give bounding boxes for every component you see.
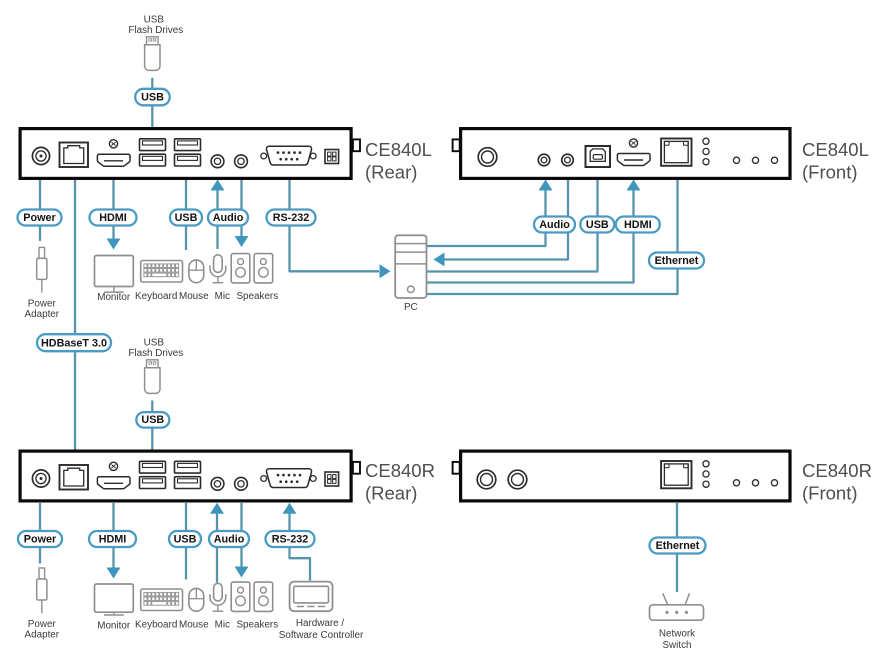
wire HDBaseT link CE840L to CE840R [74,179,76,451]
PC tower icon [395,235,426,298]
CE840L front ethernet RJ-45 port [661,139,691,166]
top power adapter icon [37,247,47,292]
svg-text:Ethernet: Ethernet [655,255,699,267]
wire USB port to keyboard and mouse [185,179,187,250]
top mouse icon [189,260,204,283]
label pill Ethernet (CE840R) [650,538,706,554]
svg-text:Ethernet: Ethernet [656,540,700,552]
arrowhead HDMI to monitor (bottom) [107,568,121,579]
svg-text:CE840L: CE840L [802,139,869,160]
CE840R front left mounting tab [453,462,460,474]
CE840L rear HDMI port [97,140,130,167]
CE840L rear HDBaseT RJ-45 port [60,143,89,168]
label pill HDBaseT 3.0 [37,334,111,351]
svg-text:Software Controller: Software Controller [279,630,364,641]
svg-text:Flash Drives: Flash Drives [128,25,183,36]
svg-text:Speakers: Speakers [236,620,278,631]
bottom keyboard icon [141,589,183,611]
svg-text:(Rear): (Rear) [365,483,417,504]
svg-text:USB: USB [174,534,197,546]
arrowhead RS-232 into CE840R [283,503,297,514]
CE840R rear audio out jack [235,477,248,490]
wire USB flash drive to CE840L rear USB port [151,78,153,128]
label pill HDMI (CE840R) [89,531,136,547]
label pill USB (top flash drive) [135,89,170,106]
CE840R rear USB port 4 [175,477,201,489]
wire CE840R power port to power adapter [39,503,41,564]
CE840L rear mic jack [211,155,224,168]
svg-text:USB: USB [586,219,609,231]
svg-text:CE840R: CE840R [802,460,872,481]
svg-text:HDMI: HDMI [99,212,127,224]
label pill Power (CE840L) [18,210,62,226]
svg-text:Keyboard: Keyboard [135,620,177,631]
top microphone icon [210,255,226,283]
CE840R rear right mounting tab [353,462,360,474]
CE840R front power button [477,470,496,489]
CE840R front ethernet RJ-45 port [661,461,691,488]
svg-text:(Rear): (Rear) [365,162,417,183]
svg-text:Flash Drives: Flash Drives [128,348,183,359]
arrowhead audio to speakers (bottom) [235,567,249,578]
label CE840R (Rear) [365,460,435,504]
svg-text:RS-232: RS-232 [273,212,310,224]
CE840L rear RS-232 DB9 port [261,146,316,165]
svg-text:Power: Power [28,298,57,309]
label pill RS-232 (CE840R) [266,531,315,547]
CE840R rear USB port 1 [140,461,166,473]
CE840R rear mic jack [211,477,224,490]
svg-text:Mic: Mic [215,291,230,302]
CE840R rear HDBaseT RJ-45 port [60,465,89,490]
svg-text:Monitor: Monitor [97,292,131,303]
arrowhead mic into CE840R audio-in [210,503,224,514]
svg-text:PC: PC [404,302,418,313]
label pill Power (CE840R) [18,531,62,547]
bottom microphone icon [210,583,226,611]
label pill USB (CE840R) [169,531,201,547]
svg-text:Audio: Audio [214,534,245,546]
CE840R rear chassis [20,451,351,501]
svg-text:USB: USB [175,212,198,224]
CE840L rear USB port 4 [175,154,201,166]
svg-text:Switch: Switch [662,640,691,651]
wire audio-out port to speakers [240,179,242,238]
svg-text:HDBaseT 3.0: HDBaseT 3.0 [41,337,107,349]
label pill HDMI (CE840L) [90,210,137,226]
bottom mouse icon [189,588,204,611]
svg-text:Adapter: Adapter [25,630,60,641]
svg-text:Power: Power [23,212,56,224]
CE840R rear USB port 2 [175,461,201,473]
label pill Audio (CE840R) [209,531,249,547]
wire mic to audio-in port [216,189,218,249]
CE840R front audio button [508,470,527,489]
CE840L front audio jack 1 [538,154,550,166]
middle USB flash drive icon [145,360,160,394]
wire CE840R HDMI port to monitor [112,503,114,569]
wire PC audio to CE840L front mic jack [427,189,546,246]
label pill USB (middle flash drive) [136,412,169,428]
svg-text:RS-232: RS-232 [272,534,309,546]
CE840R front chassis [461,451,790,501]
CE840R rear DC power jack [32,470,49,487]
top speakers icon [231,254,273,283]
arrowhead HDMI to monitor [107,239,121,250]
label CE840L (Rear) [365,139,432,183]
label CE840R (Front) [802,460,872,504]
wire PC USB to CE840L front USB-B port [427,179,598,272]
top monitor icon [95,256,134,293]
top keyboard icon [141,261,183,283]
CE840L front chassis [461,129,790,179]
svg-text:Speakers: Speakers [236,291,278,302]
bottom speakers icon [231,582,273,611]
label pill Audio (CE840L) [208,210,248,226]
svg-text:HDMI: HDMI [624,219,652,231]
bottom monitor icon [95,584,134,615]
top USB flash drive icon [145,37,160,71]
wire CE840R audio-out port to speakers [240,503,242,567]
svg-text:HDMI: HDMI [99,534,127,546]
CE840L rear USB port 1 [140,139,166,151]
svg-text:Power: Power [28,619,57,630]
label pill RS-232 (CE840L) [267,210,316,226]
CE840L front LED indicators [703,138,709,165]
CE840R rear RS-232 DB9 port [261,469,316,488]
CE840R rear DIP switch [325,472,339,486]
wire CE840R front ethernet port to network switch [676,503,678,592]
CE840L rear USB port 3 [140,154,166,166]
label CE840L (Front) [802,139,869,183]
CE840L front USB type-B port [586,146,611,167]
svg-text:(Front): (Front) [802,162,858,183]
CE840L rear DIP switch [325,150,339,164]
label pill HDMI (PC) [616,217,660,233]
CE840L rear right mounting tab [353,139,360,151]
wire CE840L front audio jack to PC [443,179,568,260]
arrowhead audio to speakers [235,236,249,247]
svg-text:(Front): (Front) [802,483,858,504]
CE840L front pushbuttons [733,157,777,163]
svg-text:Hardware /: Hardware / [296,618,345,629]
CE840L front power button [478,148,497,167]
wire HDMI port to monitor [112,179,114,240]
CE840R front pushbuttons [733,480,777,486]
svg-text:Power: Power [24,534,57,546]
svg-text:Audio: Audio [213,212,244,224]
arrowhead RS-232 into PC [380,264,391,278]
wire power port to power adapter [39,179,41,241]
bottom power adapter icon [37,568,47,613]
CE840L rear audio out jack [235,155,248,168]
arrowhead HDMI into CE840L front [627,180,641,191]
svg-text:Mic: Mic [215,620,230,631]
CE840L rear DC power jack [32,147,49,164]
label pill Ethernet (PC) [649,253,704,269]
CE840R rear USB port 3 [140,477,166,489]
svg-text:CE840L: CE840L [365,139,432,160]
label pill USB (CE840L) [170,210,202,226]
CE840R front LED indicators [703,461,709,488]
hardware/software controller icon [290,582,333,612]
label pill USB (PC) [580,217,614,233]
svg-text:Adapter: Adapter [25,309,60,320]
svg-text:Mouse: Mouse [179,291,209,302]
svg-text:CE840R: CE840R [365,460,435,481]
CE840L rear chassis [20,129,351,179]
svg-text:USB: USB [141,414,164,426]
network switch icon [650,593,704,620]
wire USB flash drive to CE840R rear USB port [151,401,153,452]
wire PC video to CE840L front HDMI port [427,189,634,283]
arrowhead audio into CE840L front [539,180,553,191]
svg-text:USB: USB [141,92,164,104]
CE840L front audio jack 2 [562,154,574,166]
arrowhead mic into CE840L audio-in [211,180,225,191]
CE840L front left mounting tab [453,139,460,151]
label pill Audio (PC) [534,217,575,233]
CE840L front HDMI port [617,139,650,166]
wire mic to CE840R audio-in port [216,513,218,583]
wire RS-232 port to PC [290,179,380,271]
svg-text:Network: Network [659,629,695,640]
CE840R rear HDMI port [97,462,130,489]
svg-text:Keyboard: Keyboard [135,291,177,302]
svg-text:Mouse: Mouse [179,620,209,631]
wire CE840R USB port to keyboard and mouse [185,503,187,580]
svg-text:Audio: Audio [539,219,570,231]
arrowhead audio into PC [434,253,445,267]
svg-text:Monitor: Monitor [97,620,131,631]
wire PC LAN to CE840L front ethernet port [427,179,678,294]
CE840L rear USB port 2 [175,139,201,151]
wire hardware controller to CE840R RS-232 port [290,513,311,581]
